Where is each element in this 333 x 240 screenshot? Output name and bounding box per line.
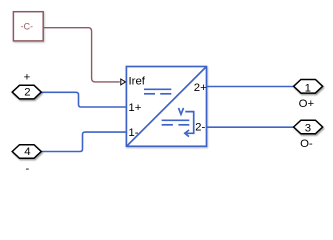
converter block	[126, 67, 206, 147]
svg-text:O-: O-	[300, 138, 313, 150]
DC symbol upper (solid line)	[144, 88, 171, 90]
svg-text:2+: 2+	[194, 82, 207, 94]
wire 2- to port3	[207, 126, 294, 128]
svg-text:Iref: Iref	[129, 76, 146, 88]
svg-text:1: 1	[305, 82, 311, 94]
svg-text:4: 4	[24, 146, 30, 158]
connection port 2	[12, 85, 41, 99]
connection port 1	[294, 80, 323, 94]
constant block -C-	[13, 12, 43, 41]
connection port 3	[294, 120, 323, 134]
DC symbol upper (dashed line)	[144, 93, 155, 95]
DC symbol lower (dashed line)	[162, 124, 173, 126]
svg-text:1+: 1+	[128, 102, 141, 114]
svg-text:-C-: -C-	[21, 21, 33, 31]
v label of regulation icon	[179, 108, 184, 114]
svg-text:-: -	[26, 163, 30, 175]
wire port2 to 1+	[41, 92, 126, 107]
connection port 4	[12, 145, 41, 159]
svg-text:3: 3	[305, 123, 311, 135]
svg-text:2: 2	[24, 87, 30, 99]
wire port4 to 1-	[41, 132, 126, 151]
svg-text:1-: 1-	[128, 127, 138, 139]
wire from -C- to Iref port	[43, 28, 120, 82]
DC symbol lower (solid line)	[162, 119, 190, 121]
svg-text:+: +	[24, 71, 31, 83]
wire 2+ to port1	[207, 86, 294, 88]
regulation arrowhead	[185, 130, 189, 137]
svg-text:2-: 2-	[195, 121, 205, 133]
regulation arrow bracket	[185, 112, 193, 134]
input port arrow at Iref	[121, 79, 126, 85]
svg-text:O+: O+	[299, 98, 315, 110]
diagonal of converter block	[127, 67, 206, 146]
